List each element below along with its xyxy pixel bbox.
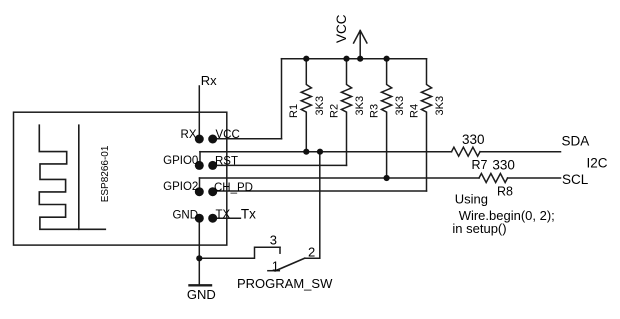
antenna meander of ESP8266-01: [39, 125, 105, 229]
VCC arrow symbol: [354, 31, 367, 59]
switch SW1 pin 1 terminal: [268, 270, 279, 272]
svg-text:R3: R3: [369, 104, 381, 118]
wire TX pin to Tx net: [213, 217, 241, 219]
svg-text:R4: R4: [408, 104, 420, 118]
resistor R7: [452, 147, 481, 156]
junction dot rail R3: [384, 56, 390, 62]
pin dot RX: [195, 135, 204, 144]
wire GND junction to switch pin 3: [199, 247, 280, 258]
wire RST line: [213, 164, 347, 166]
svg-text:I2C: I2C: [587, 155, 608, 170]
junction dot GND net: [196, 255, 202, 261]
wire GPIO0 / SDA line left part: [200, 151, 452, 153]
junction dot switch branch on SDA line: [317, 149, 323, 155]
svg-text:GPIO0: GPIO0: [163, 155, 198, 167]
svg-text:R1: R1: [288, 104, 300, 118]
svg-text:3K3: 3K3: [434, 96, 446, 116]
svg-text:TX: TX: [216, 209, 231, 221]
junction dot R3 on SCL line: [384, 175, 390, 181]
pin dot TX: [208, 214, 217, 223]
svg-text:3K3: 3K3: [314, 96, 326, 116]
svg-text:Rx: Rx: [201, 73, 217, 88]
pin dot CH_PD: [208, 187, 217, 196]
wire R7 to SDA: [480, 151, 560, 153]
ground bar: [190, 284, 212, 286]
svg-text:Tx: Tx: [241, 207, 256, 222]
switch SW1 pin 3 stub: [279, 247, 281, 253]
resistor R2: [341, 59, 351, 166]
pin dot GPIO0: [195, 161, 204, 170]
svg-text:GND: GND: [172, 210, 198, 222]
wire GPIO2 stub: [199, 178, 201, 192]
pin dot RST: [208, 161, 217, 170]
svg-text:ESP8266-01: ESP8266-01: [100, 145, 111, 202]
wire R8 to SCL: [508, 177, 561, 179]
pin dot VCC: [208, 135, 217, 144]
switch SW1 lever: [275, 258, 305, 271]
wire Rx stem to RX pin: [198, 86, 200, 139]
junction dot rail R2: [343, 56, 349, 62]
junction dot rail R1: [303, 56, 309, 62]
svg-text:VCC: VCC: [334, 14, 349, 43]
svg-text:VCC: VCC: [216, 129, 240, 141]
svg-text:R7: R7: [472, 158, 488, 172]
wire GND pin down: [198, 218, 200, 285]
svg-text:3: 3: [270, 232, 277, 247]
svg-text:RX: RX: [181, 129, 197, 141]
svg-text:in setup(): in setup(): [452, 221, 506, 236]
svg-text:RST: RST: [215, 156, 238, 168]
svg-text:330: 330: [462, 132, 485, 147]
antenna right element: [78, 125, 80, 229]
resistor R1: [301, 59, 311, 152]
svg-text:3K3: 3K3: [394, 96, 406, 116]
svg-text:SDA: SDA: [562, 134, 590, 149]
svg-text:R2: R2: [328, 104, 340, 118]
wire GPIO0 stub: [199, 152, 201, 166]
svg-text:GPIO2: GPIO2: [163, 181, 198, 193]
wire VCC feed vertical: [281, 59, 283, 139]
wire VCC rail: [282, 58, 427, 60]
svg-text:1: 1: [272, 259, 279, 274]
svg-text:PROGRAM_SW: PROGRAM_SW: [237, 276, 333, 291]
resistor R3: [382, 59, 392, 178]
resistor R4: [421, 59, 431, 191]
resistor R8: [479, 174, 508, 183]
pin dot GND: [195, 214, 204, 223]
pin dot GPIO2: [195, 187, 204, 196]
wire VCC pin to VCC feed: [213, 138, 282, 140]
svg-text:2: 2: [308, 244, 315, 259]
junction dot R1 on SDA line: [303, 149, 309, 155]
module U1 ESP8266-01 body: [14, 112, 227, 245]
wire CH_PD line: [213, 190, 427, 192]
junction dot rail VCC arrow: [357, 56, 363, 62]
switch SW1 pin 2 wire: [305, 152, 320, 259]
wire GPIO2 / SCL line left part: [200, 177, 480, 179]
svg-text:3K3: 3K3: [354, 96, 366, 116]
svg-text:330: 330: [492, 157, 515, 172]
svg-text:Using: Using: [455, 192, 488, 207]
svg-text:SCL: SCL: [562, 172, 589, 187]
svg-text:CH_PD: CH_PD: [214, 182, 253, 194]
svg-text:R8: R8: [497, 185, 513, 199]
svg-text:GND: GND: [187, 287, 216, 302]
